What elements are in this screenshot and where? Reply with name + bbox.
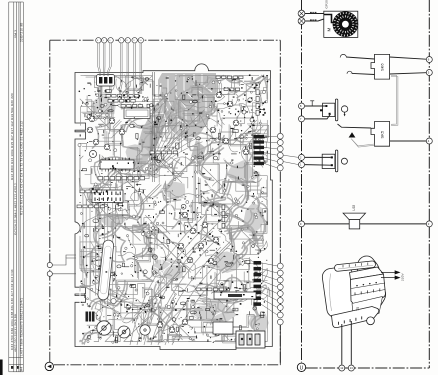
PCB copper traces (79, 75, 269, 343)
wires from edge connector to terminals (261, 136, 277, 315)
svg-text:R1 R2 R3 C1 C2 C5 C7 C9 T1 T2: R1 R2 R3 C1 C2 C5 C7 C9 T1 T2 T3 GR1 GR2… (20, 121, 24, 215)
striped connector bottom-left (86, 312, 95, 322)
heat sink plate (213, 322, 233, 334)
speaker wire (305, 223, 427, 225)
transistors top-right cluster (227, 101, 233, 107)
svg-text:13: 13 (350, 366, 354, 370)
switch SK6 (371, 54, 390, 79)
small rects top-right (216, 76, 243, 79)
jack2 wires (305, 157, 331, 165)
SK6-SK5 link wire (391, 76, 398, 126)
svg-text:SK5: SK5 (380, 130, 385, 138)
svg-text:R12 3300 R14 100k R15 4k7 R17: R12 3300 R14 100k R15 4k7 R17 1k2 R19 56… (10, 93, 14, 180)
capacitor circles top-right (248, 98, 252, 102)
switch SK5 (371, 122, 390, 147)
bottom middle bar (214, 292, 256, 299)
right bus terminal circles (426, 57, 432, 227)
DIN jack BU2 (322, 150, 338, 172)
transformer secondary wires (342, 321, 352, 365)
PCB board outline (75, 64, 272, 350)
SK5 wires (338, 124, 427, 141)
wires from left terminals into PCB (52, 255, 76, 274)
mains transformer T5 (321, 256, 385, 321)
IC module (124, 108, 150, 119)
SK6 wires (346, 57, 426, 75)
wire down from lowest terminal (279, 325, 281, 365)
svg-text:22GF210 9B: 22GF210 9B (20, 22, 24, 42)
left schematic bus wire (301, 0, 303, 362)
transistors center cluster (182, 212, 188, 218)
svg-text:12: 12 (340, 366, 344, 370)
lamp contact 2 (347, 71, 352, 74)
center resistor rows (150, 151, 178, 154)
node A (frame corner marker) (45, 362, 53, 370)
actuator arrow (349, 132, 356, 137)
component ink marks (79, 75, 268, 343)
svg-text:GP208: GP208 (325, 0, 329, 9)
transistor bottom cluster (157, 322, 163, 328)
loudspeaker LS5 (343, 213, 365, 229)
top terminal circles (96, 38, 144, 43)
turntable motor M1 (324, 11, 358, 37)
right edge terminal circles lower (277, 263, 283, 325)
svg-text:SK6: SK6 (380, 63, 385, 71)
bus terminals jack1 (299, 103, 305, 122)
potentiometer mid-left (89, 150, 96, 157)
svg-text:U: U (300, 365, 304, 371)
wire colour labels (310, 12, 316, 21)
electrolytic capacitor (long) (97, 240, 114, 301)
resistor rows top-left (106, 95, 139, 98)
resistor row mid-left (98, 177, 145, 180)
right edge component column (256, 83, 259, 115)
parts list text column 3 (20, 22, 24, 356)
edge connector pads lower (254, 261, 262, 306)
trimmer potentiometer 1 (97, 321, 111, 335)
transformer terminal circles (339, 365, 355, 371)
connector block top-left (97, 75, 115, 87)
left edge terminal circles (47, 262, 52, 276)
edge connector pads upper (254, 135, 265, 165)
resistor row mid-left 2 (77, 205, 105, 208)
SK5 actuator wire (351, 139, 375, 148)
IC with pins mid-left (100, 158, 134, 172)
chassis boundary frame (dash-dot) (50, 40, 280, 365)
lamp contact 1 (340, 54, 346, 57)
PCB solder pads (78, 78, 266, 344)
PCB ground plane copper pour (132, 73, 216, 172)
parts list text column 2 (14, 30, 18, 352)
svg-text:T5: T5 (356, 307, 360, 311)
right edge terminal circles upper (277, 133, 283, 171)
PCB copper pour patches (90, 95, 268, 332)
margin index mark (0, 360, 3, 375)
svg-text:4822 070 31031 SK5 B8: 4822 070 31031 SK5 B8 (14, 314, 18, 352)
link frame to bus (283, 155, 298, 164)
mono mark (310, 101, 314, 106)
motor internal wire (324, 15, 337, 23)
svg-text:M: M (327, 28, 332, 32)
svg-text:A4: A4 (20, 367, 24, 371)
motor terminal circles (298, 10, 305, 24)
bottom schematic wire (306, 367, 430, 369)
pin header block (92, 190, 123, 203)
trimmer potentiometer 2 (118, 326, 130, 338)
svg-text:LS5: LS5 (352, 205, 356, 211)
via marker circle (111, 298, 116, 303)
table footer cells (11, 366, 24, 371)
dense pad clusters (83, 75, 268, 313)
mains arrows (381, 271, 400, 279)
electrolytic capacitor small (140, 325, 150, 335)
node U (bottom marker) (297, 363, 305, 371)
DIN jack BU1 (323, 99, 338, 121)
wires from top terminals into PCB (98, 43, 142, 94)
svg-text:220V: 220V (401, 273, 405, 281)
PCB copper trace rivers (80, 76, 270, 344)
svg-text:GC024 22 384-1 4822 212 47012: GC024 22 384-1 4822 212 47012 (14, 183, 18, 235)
bus terminals jack2 (299, 154, 305, 167)
jack plug 1 (341, 106, 347, 117)
svg-text:VM 3: VM 3 (14, 30, 18, 38)
small component outlines (82, 77, 264, 342)
svg-text:LAST 7908-75263/670 5081271/2/: LAST 7908-75263/670 5081271/2/4/1 (20, 298, 24, 356)
jack1 wires (305, 106, 331, 119)
jack plug 2 (341, 158, 347, 164)
motor supply wires (305, 14, 324, 22)
output stage block bottom-right (236, 331, 265, 348)
transistors left cluster (89, 116, 95, 122)
parts list text column 1 (10, 93, 14, 350)
right schematic bus wire (428, 0, 430, 368)
bus terminal speaker (299, 221, 305, 227)
component lead dots (80, 79, 264, 341)
parts list table (9, 2, 23, 372)
